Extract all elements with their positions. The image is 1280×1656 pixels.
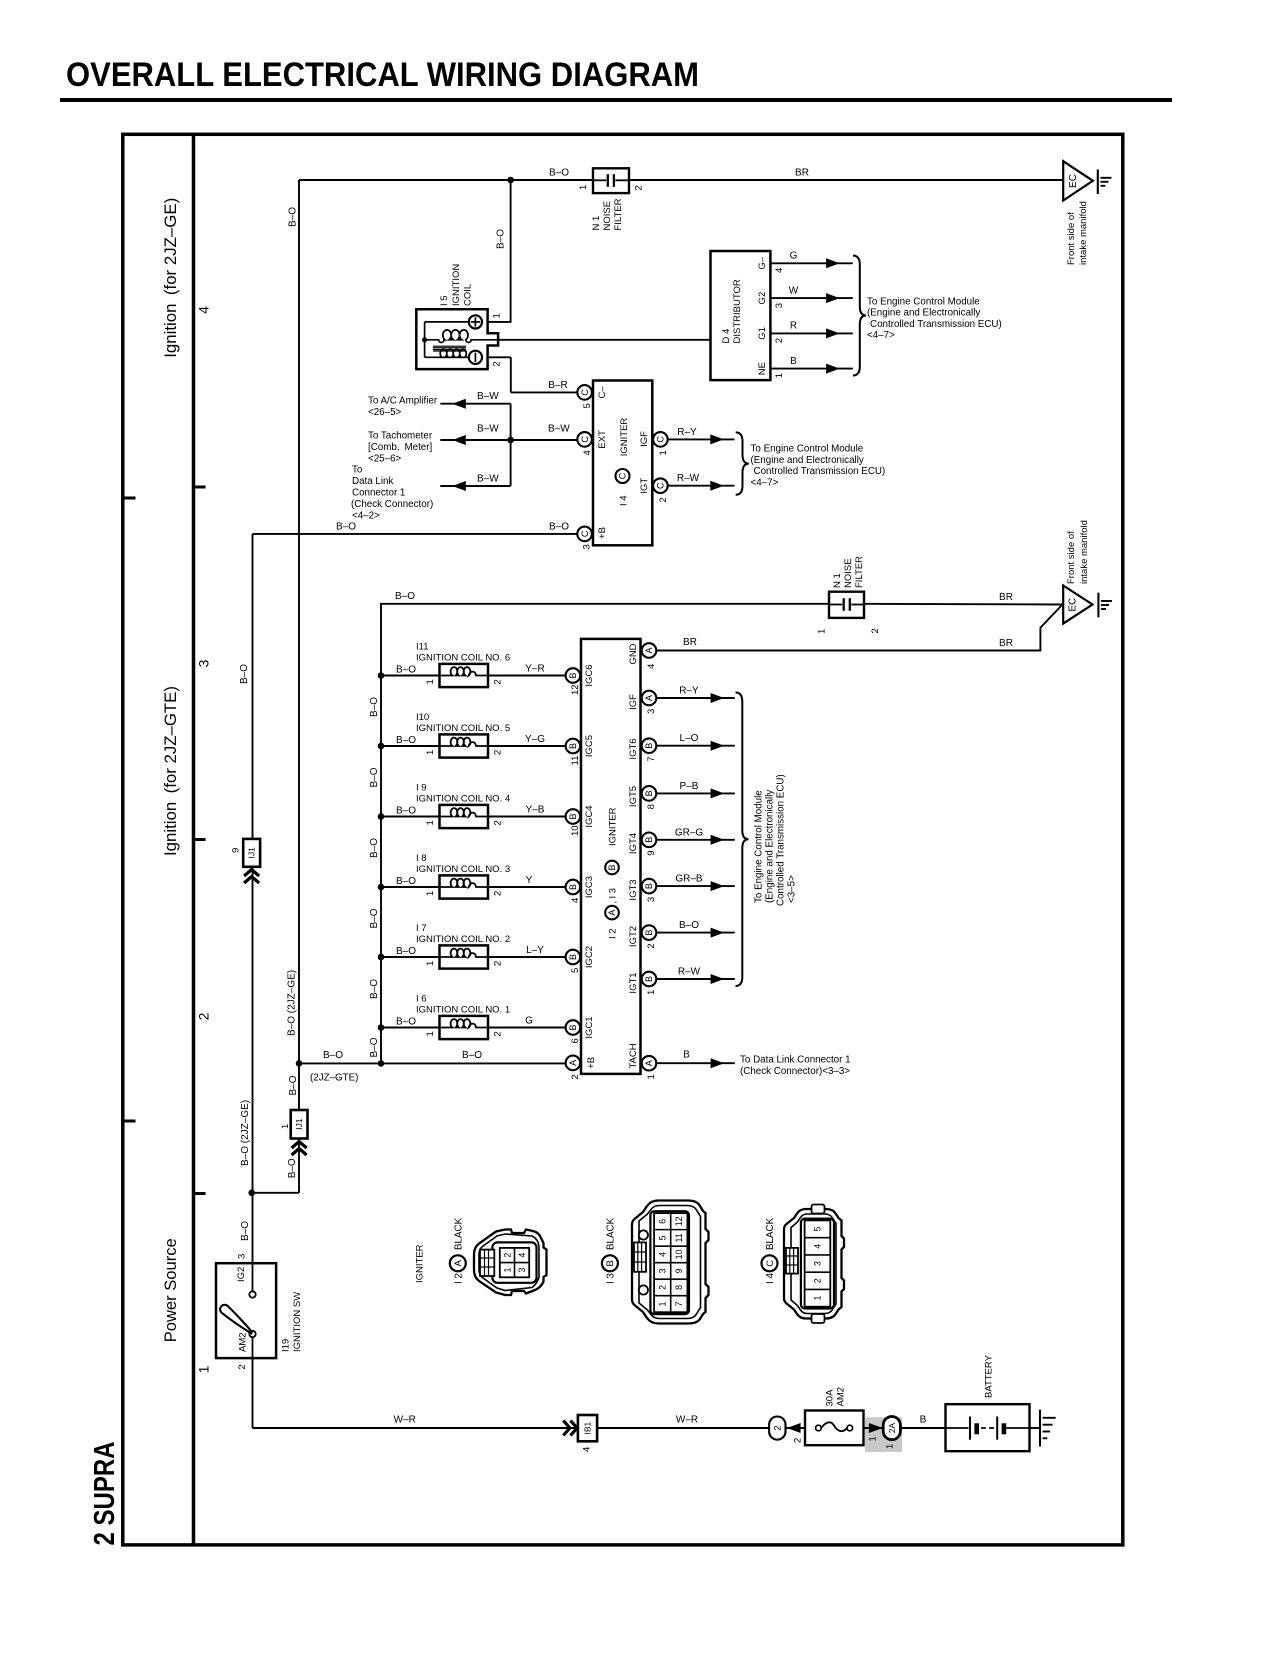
svg-text:2: 2 — [657, 1285, 667, 1290]
svg-text:R: R — [790, 321, 797, 332]
svg-text:I 4: I 4 — [618, 495, 629, 506]
svg-text:1: 1 — [425, 820, 436, 825]
svg-text:4: 4 — [774, 268, 785, 273]
svg-text:IGNITION COIL NO. 1: IGNITION COIL NO. 1 — [416, 1005, 510, 1016]
wire Y–R I11 to igniter — [488, 675, 566, 677]
svg-text:10: 10 — [570, 825, 581, 836]
svg-text:To: To — [352, 464, 363, 475]
arrowhead into connector 2 — [787, 1423, 801, 1433]
wire L–O igniter output — [656, 745, 735, 747]
wire GR–G igniter output — [656, 839, 735, 841]
svg-text:1: 1 — [425, 750, 436, 755]
connector 2 (female) — [769, 1417, 785, 1440]
svg-text:I 2: I 2 — [607, 928, 618, 939]
svg-text:B–O: B–O — [396, 1016, 416, 1027]
ignition coil I11 (IGNITION COIL NO. 6) — [440, 664, 489, 687]
svg-text:A: A — [453, 1259, 464, 1266]
svg-text:11: 11 — [674, 1233, 684, 1242]
svg-text:I19: I19 — [280, 1339, 291, 1352]
svg-text:[Comb. Meter]: [Comb. Meter] — [368, 442, 433, 453]
svg-text:A: A — [644, 1060, 654, 1066]
svg-text:5: 5 — [570, 968, 581, 973]
title rule — [60, 98, 1172, 102]
svg-text:2: 2 — [195, 1012, 211, 1020]
svg-text:B–O: B–O — [395, 591, 415, 602]
wire B-O x299 to IJ1 pin 1 — [298, 1063, 300, 1110]
wire B TACH output — [656, 1062, 735, 1064]
svg-text:N 1: N 1 — [591, 216, 602, 231]
svg-text:IJ1: IJ1 — [247, 847, 257, 859]
svg-text:2: 2 — [658, 497, 669, 502]
svg-text:B–O: B–O — [369, 1037, 380, 1057]
svg-text:Y–R: Y–R — [525, 663, 544, 674]
svg-text:L–O: L–O — [680, 733, 699, 744]
svg-text:IGT1: IGT1 — [628, 972, 639, 993]
svg-text:1: 1 — [492, 313, 503, 318]
pin 9 connector B — [642, 833, 657, 848]
row tick outer y498 — [125, 497, 136, 500]
svg-text:2 SUPRA: 2 SUPRA — [89, 1441, 121, 1545]
wire B-O to igniter I4 +B — [253, 533, 578, 535]
svg-text:G1: G1 — [757, 327, 768, 340]
svg-text:W–R: W–R — [676, 1415, 698, 1426]
svg-text:4: 4 — [657, 1252, 667, 1257]
svg-text:I 3: I 3 — [605, 1273, 616, 1284]
svg-text:R–Y: R–Y — [679, 686, 699, 697]
svg-text:BR: BR — [683, 637, 697, 648]
svg-text:12: 12 — [674, 1216, 684, 1226]
svg-text:B–O: B–O — [396, 946, 416, 957]
wire B distributor output — [770, 368, 852, 370]
svg-text:2: 2 — [492, 679, 503, 684]
svg-text:BR: BR — [999, 592, 1013, 603]
junction IJ1 pin 1 — [291, 1110, 308, 1139]
svg-text:TACH: TACH — [628, 1043, 639, 1068]
svg-text:C: C — [580, 389, 590, 396]
ground EC (section 4) — [1063, 161, 1093, 200]
svg-text:A: A — [644, 695, 654, 701]
svg-text:1: 1 — [195, 1365, 211, 1373]
svg-text:BATTERY: BATTERY — [983, 1354, 994, 1398]
svg-text:Y–G: Y–G — [525, 734, 545, 745]
svg-text:1: 1 — [425, 1031, 436, 1036]
svg-text:IGNITION: IGNITION — [451, 264, 462, 306]
wire B-W to tachometer — [440, 439, 577, 441]
pin 4 connector A GND — [642, 643, 657, 658]
frame inner divider — [192, 134, 196, 1545]
svg-text:<4–2>: <4–2> — [352, 510, 380, 521]
svg-text:B: B — [644, 883, 654, 889]
pin 2 connector B — [642, 925, 657, 940]
svg-text:GND: GND — [628, 643, 639, 664]
wire R-W IGT output — [668, 485, 735, 487]
wire Y–G I10 to igniter — [488, 745, 566, 747]
svg-text:B–O: B–O — [287, 1158, 298, 1178]
junction dot coil feed I 8 — [378, 884, 385, 891]
svg-text:3: 3 — [657, 1268, 667, 1273]
svg-text:1: 1 — [658, 450, 669, 455]
svg-text:Front side of: Front side of — [1066, 531, 1077, 584]
svg-text:I 4: I 4 — [765, 1273, 776, 1284]
svg-text:IGT4: IGT4 — [628, 833, 639, 854]
svg-text:IGT6: IGT6 — [628, 738, 639, 759]
svg-text:B–W: B–W — [477, 474, 499, 485]
svg-text:FILTER: FILTER — [613, 198, 624, 230]
connector 2A (highlighted) — [883, 1417, 900, 1440]
svg-text:(Engine and Electronically: (Engine and Electronically — [751, 455, 864, 466]
svg-text:DISTRIBUTOR: DISTRIBUTOR — [732, 279, 743, 343]
svg-text:4: 4 — [812, 1244, 822, 1249]
wire Y I 8 to igniter — [488, 886, 566, 888]
svg-text:IGNITION COIL NO. 4: IGNITION COIL NO. 4 — [416, 794, 510, 805]
svg-text:IGNITER: IGNITER — [414, 1244, 425, 1283]
svg-text:2: 2 — [492, 820, 503, 825]
svg-text:9: 9 — [674, 1268, 684, 1273]
capacitor noise filter N1 (2JZ-GE) — [593, 168, 629, 193]
svg-text:D 4: D 4 — [721, 329, 732, 344]
svg-text:B–O: B–O — [288, 1075, 299, 1095]
svg-text:I 2: I 2 — [453, 1273, 464, 1284]
svg-text:EC: EC — [1068, 174, 1079, 188]
svg-text:G2: G2 — [757, 292, 768, 305]
svg-text:1: 1 — [657, 1301, 667, 1306]
svg-text:OVERALL ELECTRICAL WIRING DIAG: OVERALL ELECTRICAL WIRING DIAGRAM — [66, 56, 699, 94]
svg-text:I 5: I 5 — [439, 295, 450, 306]
svg-text:B–O: B–O — [462, 1050, 482, 1061]
svg-text:7: 7 — [674, 1301, 684, 1306]
svg-text:4: 4 — [517, 1253, 527, 1258]
svg-text:A: A — [644, 647, 654, 653]
svg-text:2A: 2A — [887, 1422, 897, 1433]
wire B-O feed bus (section 3) — [381, 604, 829, 1064]
svg-text:4: 4 — [195, 306, 211, 314]
svg-text:Front side of: Front side of — [1066, 212, 1077, 265]
wire L–Y I 7 to igniter — [488, 956, 566, 958]
wire BR GND to ground EC — [656, 606, 1061, 651]
junction dot B-W — [507, 437, 514, 444]
svg-text:B–O: B–O — [240, 1221, 251, 1241]
svg-text:Ignition (for 2JZ–GTE): Ignition (for 2JZ–GTE) — [162, 686, 180, 856]
svg-text:NOISE: NOISE — [843, 558, 854, 588]
svg-text:B: B — [644, 930, 654, 936]
svg-text:IGT: IGT — [639, 478, 650, 494]
svg-text:B–O: B–O — [336, 521, 356, 532]
svg-text:B–O: B–O — [396, 805, 416, 816]
wire B connector 2A to battery — [900, 1427, 945, 1429]
svg-text:IB1: IB1 — [582, 1421, 592, 1434]
svg-text:I 7: I 7 — [416, 923, 427, 934]
svg-text:1: 1 — [774, 373, 785, 378]
wire W-R switch to junction IB1 — [252, 1358, 254, 1428]
svg-text:7: 7 — [646, 756, 657, 761]
pin 7 connector B — [642, 738, 657, 753]
svg-text:B: B — [644, 790, 654, 796]
svg-text:IGNITION COIL NO. 3: IGNITION COIL NO. 3 — [416, 864, 510, 875]
svg-text:G: G — [790, 251, 798, 262]
svg-text:11: 11 — [570, 756, 581, 766]
svg-text:9: 9 — [646, 851, 657, 856]
svg-text:3: 3 — [812, 1261, 822, 1266]
svg-text:To Engine Control Module: To Engine Control Module — [751, 444, 864, 455]
svg-text:BLACK: BLACK — [605, 1217, 616, 1250]
svg-text:C: C — [580, 436, 590, 443]
ignition coil I 8 (IGNITION COIL NO. 3) — [440, 875, 489, 898]
svg-text:P–B: P–B — [680, 781, 699, 792]
svg-text:EXT: EXT — [597, 430, 608, 449]
junction dot coil feed I 9 — [378, 813, 385, 820]
wire B-O to I 7 — [381, 956, 440, 958]
wire R-Y IGF output — [668, 438, 735, 440]
svg-text:B: B — [790, 356, 797, 367]
svg-text:IGF: IGF — [628, 694, 639, 710]
svg-text:1: 1 — [425, 961, 436, 966]
wire B-O (2JZ-GE) vertical — [252, 534, 254, 839]
svg-text:1: 1 — [884, 1444, 895, 1449]
pin 6 connector B igniter — [566, 1020, 581, 1035]
svg-text:IGC6: IGC6 — [584, 664, 595, 686]
svg-text:2: 2 — [492, 750, 503, 755]
wire B-O to ignition coil I5 pin 1 — [488, 180, 511, 322]
svg-text:10: 10 — [674, 1249, 684, 1259]
svg-text:To Engine Control Module: To Engine Control Module — [753, 790, 764, 903]
ignition coil I10 (IGNITION COIL NO. 5) — [440, 734, 489, 757]
svg-text:Controlled Transmission ECU): Controlled Transmission ECU) — [775, 774, 786, 906]
svg-text:NE: NE — [757, 362, 768, 375]
pin 3 connector A — [642, 691, 657, 706]
svg-text:5: 5 — [582, 403, 593, 408]
svg-text:FILTER: FILTER — [854, 556, 865, 588]
svg-text:IGC2: IGC2 — [584, 946, 595, 968]
fuse 30A AM2 — [805, 1411, 864, 1446]
svg-text:To Engine Control Module: To Engine Control Module — [867, 297, 980, 308]
wire W-R IB1 to connector — [597, 1427, 769, 1429]
svg-text:4: 4 — [646, 664, 657, 669]
svg-text:W: W — [789, 285, 799, 296]
svg-text:3: 3 — [236, 1254, 247, 1259]
svg-text:R–Y: R–Y — [677, 427, 697, 438]
svg-text:I10: I10 — [416, 712, 429, 723]
svg-text:B: B — [644, 837, 654, 843]
svg-text:R–W: R–W — [678, 967, 701, 978]
svg-text:B–O: B–O — [369, 838, 380, 858]
svg-text:IGNITER: IGNITER — [607, 807, 618, 846]
svg-text:<26–5>: <26–5> — [368, 407, 402, 418]
wire B-O to I11 — [381, 675, 440, 677]
svg-text:1: 1 — [502, 1267, 512, 1272]
svg-text:12: 12 — [570, 684, 581, 695]
svg-text:B–W: B–W — [477, 424, 499, 435]
svg-text:2: 2 — [492, 361, 503, 366]
svg-text:5: 5 — [812, 1226, 822, 1231]
svg-text:B–O: B–O — [549, 521, 569, 532]
row tick outer y1121 — [125, 1120, 136, 1123]
svg-text:8: 8 — [674, 1285, 684, 1290]
pin 5 connector B igniter — [566, 950, 581, 965]
svg-text:+B: +B — [586, 1057, 597, 1069]
row tick inner y1193.5 — [195, 1192, 205, 1195]
svg-text:I 6: I 6 — [416, 994, 427, 1005]
svg-text:IG2: IG2 — [236, 1267, 247, 1282]
svg-text:Y: Y — [526, 875, 533, 886]
svg-text:IGC1: IGC1 — [584, 1016, 595, 1038]
ignition coil I 7 (IGNITION COIL NO. 2) — [440, 945, 489, 968]
junction dot bottom feed left — [296, 1060, 303, 1067]
svg-text:N 1: N 1 — [832, 573, 843, 588]
ignition switch I19 — [216, 1263, 276, 1358]
svg-text:Controlled Transmission ECU): Controlled Transmission ECU) — [870, 319, 1002, 330]
svg-text:I 9: I 9 — [416, 783, 427, 794]
svg-text:B: B — [644, 976, 654, 982]
wire B-O to I10 — [381, 745, 440, 747]
svg-text:1: 1 — [578, 185, 589, 190]
battery — [946, 1404, 1030, 1451]
grey pad connector 2A — [865, 1417, 902, 1452]
svg-text:(2JZ–GTE): (2JZ–GTE) — [310, 1072, 358, 1083]
svg-text:(Engine and Electronically: (Engine and Electronically — [867, 308, 980, 319]
svg-text:B–O: B–O — [323, 1050, 343, 1061]
svg-text:B: B — [568, 884, 578, 890]
svg-text:2: 2 — [870, 628, 881, 633]
svg-text:G–: G– — [757, 256, 768, 269]
junction IJ1 pin 9 — [243, 839, 260, 867]
svg-text:30A: 30A — [824, 1389, 835, 1407]
capacitor noise filter N1 (2JZ-GTE) — [829, 592, 864, 618]
pin 3 connector C igniter I4 — [577, 527, 592, 542]
svg-text:AM2: AM2 — [237, 1332, 248, 1352]
svg-text:IGC5: IGC5 — [584, 735, 595, 757]
svg-text:B–R: B–R — [548, 380, 567, 391]
junction dot coil feed I 7 — [378, 954, 385, 961]
junction dot coil feed I 6 — [378, 1024, 385, 1031]
connector I2 face — [474, 1230, 547, 1296]
svg-text:C: C — [656, 482, 666, 489]
svg-text:3: 3 — [517, 1267, 527, 1272]
svg-text:NOISE: NOISE — [602, 201, 613, 231]
svg-text:GR–B: GR–B — [675, 874, 703, 885]
svg-text:9: 9 — [230, 848, 241, 853]
pin 4 connector C igniter I4 — [577, 432, 592, 447]
svg-text:B–O: B–O — [369, 979, 380, 999]
svg-text:2: 2 — [492, 891, 503, 896]
svg-text:W–R: W–R — [394, 1415, 416, 1426]
svg-text:C: C — [618, 472, 628, 479]
svg-text:B–O (2JZ–GE): B–O (2JZ–GE) — [287, 970, 298, 1036]
svg-text:3: 3 — [646, 709, 657, 714]
svg-text:C: C — [765, 1260, 776, 1267]
svg-text:(Check Connector)<3–3>: (Check Connector)<3–3> — [740, 1066, 850, 1077]
svg-text:,: , — [607, 901, 618, 904]
svg-text:2: 2 — [492, 1031, 503, 1036]
svg-text:B: B — [607, 864, 617, 870]
svg-text:intake manifold: intake manifold — [1078, 201, 1089, 265]
junction IB1 pin 4 — [571, 1421, 578, 1436]
svg-text:<4–7>: <4–7> — [751, 477, 779, 488]
wire R–W igniter output — [656, 978, 735, 980]
svg-text:2: 2 — [237, 1364, 248, 1369]
svg-text:I 8: I 8 — [416, 853, 427, 864]
svg-text:(Check Connector): (Check Connector) — [351, 499, 433, 510]
pin 12 connector B igniter — [566, 668, 581, 683]
svg-text:B–O (2JZ–GE): B–O (2JZ–GE) — [240, 1100, 251, 1166]
connector I4 face — [784, 1209, 844, 1319]
pin 2 connector C igniter I4 — [653, 478, 668, 493]
svg-text:B–O: B–O — [679, 920, 699, 931]
svg-text:2: 2 — [774, 338, 785, 343]
svg-text:IGT2: IGT2 — [628, 926, 639, 947]
svg-text:IGT5: IGT5 — [628, 786, 639, 807]
svg-text:L–Y: L–Y — [526, 945, 544, 956]
svg-text:<25–6>: <25–6> — [368, 453, 402, 464]
pin 1 connector A TACH — [642, 1056, 657, 1071]
svg-text:Connector 1: Connector 1 — [352, 487, 405, 498]
ignition coil I 6 (IGNITION COIL NO. 1) — [440, 1016, 489, 1039]
ground EC (section 3) — [1063, 586, 1092, 624]
svg-text:To Data Link Connector 1: To Data Link Connector 1 — [740, 1054, 851, 1065]
wire battery to ground — [1030, 1427, 1041, 1429]
svg-text:A: A — [568, 1060, 578, 1066]
svg-text:Controlled Transmission ECU): Controlled Transmission ECU) — [754, 466, 886, 477]
junction dot B-O switch node — [248, 1190, 255, 1197]
svg-text:4: 4 — [581, 1447, 592, 1452]
wire W distributor output — [770, 297, 852, 299]
svg-text:1: 1 — [280, 1124, 291, 1129]
brace igniter I2 I3 to ECM — [736, 693, 749, 987]
svg-text:IGC3: IGC3 — [584, 876, 595, 898]
svg-text:<3–5>: <3–5> — [786, 875, 797, 903]
svg-text:1: 1 — [817, 629, 828, 634]
wire GR–B igniter output — [656, 885, 735, 887]
distributor D4 — [711, 251, 771, 380]
junction dot node top — [507, 177, 514, 184]
wire G I 6 to igniter — [488, 1027, 566, 1029]
arrowhead into connector 2A — [869, 1423, 883, 1433]
svg-text:3: 3 — [195, 659, 211, 667]
svg-text:Data Link: Data Link — [352, 476, 393, 487]
pin 8 connector B — [642, 786, 657, 801]
svg-text:1: 1 — [646, 990, 657, 995]
svg-text:A: A — [607, 910, 617, 916]
svg-text:IGNITION COIL NO. 2: IGNITION COIL NO. 2 — [416, 934, 510, 945]
svg-text:3: 3 — [774, 303, 785, 308]
svg-text:B: B — [568, 1024, 578, 1030]
svg-text:IGNITION SW: IGNITION SW — [292, 1292, 303, 1352]
svg-text:B–O: B–O — [496, 229, 507, 249]
svg-text:B–O: B–O — [396, 664, 416, 675]
svg-text:C: C — [656, 436, 666, 443]
wire B-O bottom feed (+B 2JZ-GTE) — [299, 1062, 566, 1064]
svg-text:5: 5 — [657, 1235, 667, 1240]
svg-text:IGT3: IGT3 — [628, 879, 639, 900]
pin 1 connector B — [642, 972, 657, 987]
wire B-W to data link connector 1 — [440, 485, 510, 487]
svg-text:EC: EC — [1068, 598, 1079, 612]
svg-text:BR: BR — [795, 168, 809, 179]
row tick inner y487 — [195, 486, 205, 489]
frame border — [123, 134, 1123, 1545]
svg-text:IGNITION COIL NO. 6: IGNITION COIL NO. 6 — [416, 653, 510, 664]
ignition coil I 9 (IGNITION COIL NO. 4) — [440, 805, 489, 828]
svg-text:R–W: R–W — [677, 473, 700, 484]
pin 11 connector B igniter — [566, 739, 581, 754]
svg-text:2: 2 — [492, 961, 503, 966]
wire R distributor output — [770, 332, 852, 334]
brace igniter I4 to ECM — [736, 432, 749, 494]
svg-text:Y–B: Y–B — [526, 804, 545, 815]
svg-text:1: 1 — [425, 679, 436, 684]
brace distributor to ECM — [853, 256, 866, 376]
ignition coil I5 — [416, 309, 498, 369]
svg-text:Ignition (for 2JZ–GE): Ignition (for 2JZ–GE) — [162, 198, 180, 358]
